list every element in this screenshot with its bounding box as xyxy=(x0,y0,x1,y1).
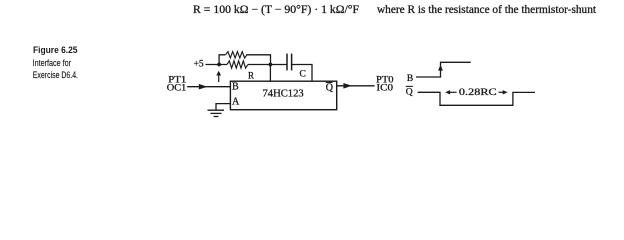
resistor R1 (top, thermistor) xyxy=(226,52,247,58)
svg-text:Interface for: Interface for xyxy=(33,58,72,68)
output arrowhead xyxy=(343,83,352,89)
wire Qbar output xyxy=(337,85,375,87)
svg-text:Q: Q xyxy=(406,88,413,98)
waveform Qbar trace xyxy=(418,92,535,105)
node 2 junction dot xyxy=(269,63,273,67)
node 1 junction dot xyxy=(217,63,221,67)
capacitor C left plate xyxy=(286,54,288,71)
svg-text:Figure 6.25: Figure 6.25 xyxy=(33,45,78,55)
wire +5 to node1 xyxy=(206,64,228,66)
input arrowhead xyxy=(199,84,208,90)
svg-text:Exercise D6.4.: Exercise D6.4. xyxy=(33,70,78,80)
svg-text:A: A xyxy=(232,97,240,108)
waveform B rising edge arrowhead xyxy=(438,65,443,71)
svg-text:+5: +5 xyxy=(194,60,204,70)
wire riser left of parallel branch xyxy=(219,55,225,65)
op-amp U1 74HC123 box xyxy=(230,81,336,110)
svg-text:OC1: OC1 xyxy=(167,82,187,92)
pulse width left arrow xyxy=(450,91,457,93)
capacitor C right plate xyxy=(291,54,293,71)
svg-text:74HC123: 74HC123 xyxy=(263,88,304,99)
svg-text:B: B xyxy=(232,81,239,92)
svg-text:0.28RC: 0.28RC xyxy=(459,87,497,98)
resistor R2 (bottom, shunt R) xyxy=(227,61,248,68)
svg-text:R: R xyxy=(248,70,254,80)
wire input to pin B xyxy=(187,86,230,88)
ground xyxy=(208,109,225,111)
wire pin A to ground xyxy=(216,104,230,111)
svg-text:R = 100 kΩ − (T − 90°F) · 1 kΩ: R = 100 kΩ − (T − 90°F) · 1 kΩ/°F xyxy=(193,4,359,16)
wire node2 down to chip xyxy=(269,65,271,82)
pulse width right arrow xyxy=(499,91,504,93)
svg-text:B: B xyxy=(407,74,413,84)
wire top branch to right riser xyxy=(246,55,270,65)
svg-text:Q: Q xyxy=(326,82,334,93)
wire capacitor down to chip xyxy=(292,65,312,82)
waveform B trace xyxy=(416,62,471,77)
svg-text:C: C xyxy=(300,69,306,79)
rising edge arrow annotation xyxy=(218,73,220,82)
svg-text:where R is the resistance of t: where R is the resistance of the thermis… xyxy=(377,4,597,16)
wire node2 to capacitor xyxy=(248,64,287,66)
svg-text:IC0: IC0 xyxy=(377,83,394,93)
